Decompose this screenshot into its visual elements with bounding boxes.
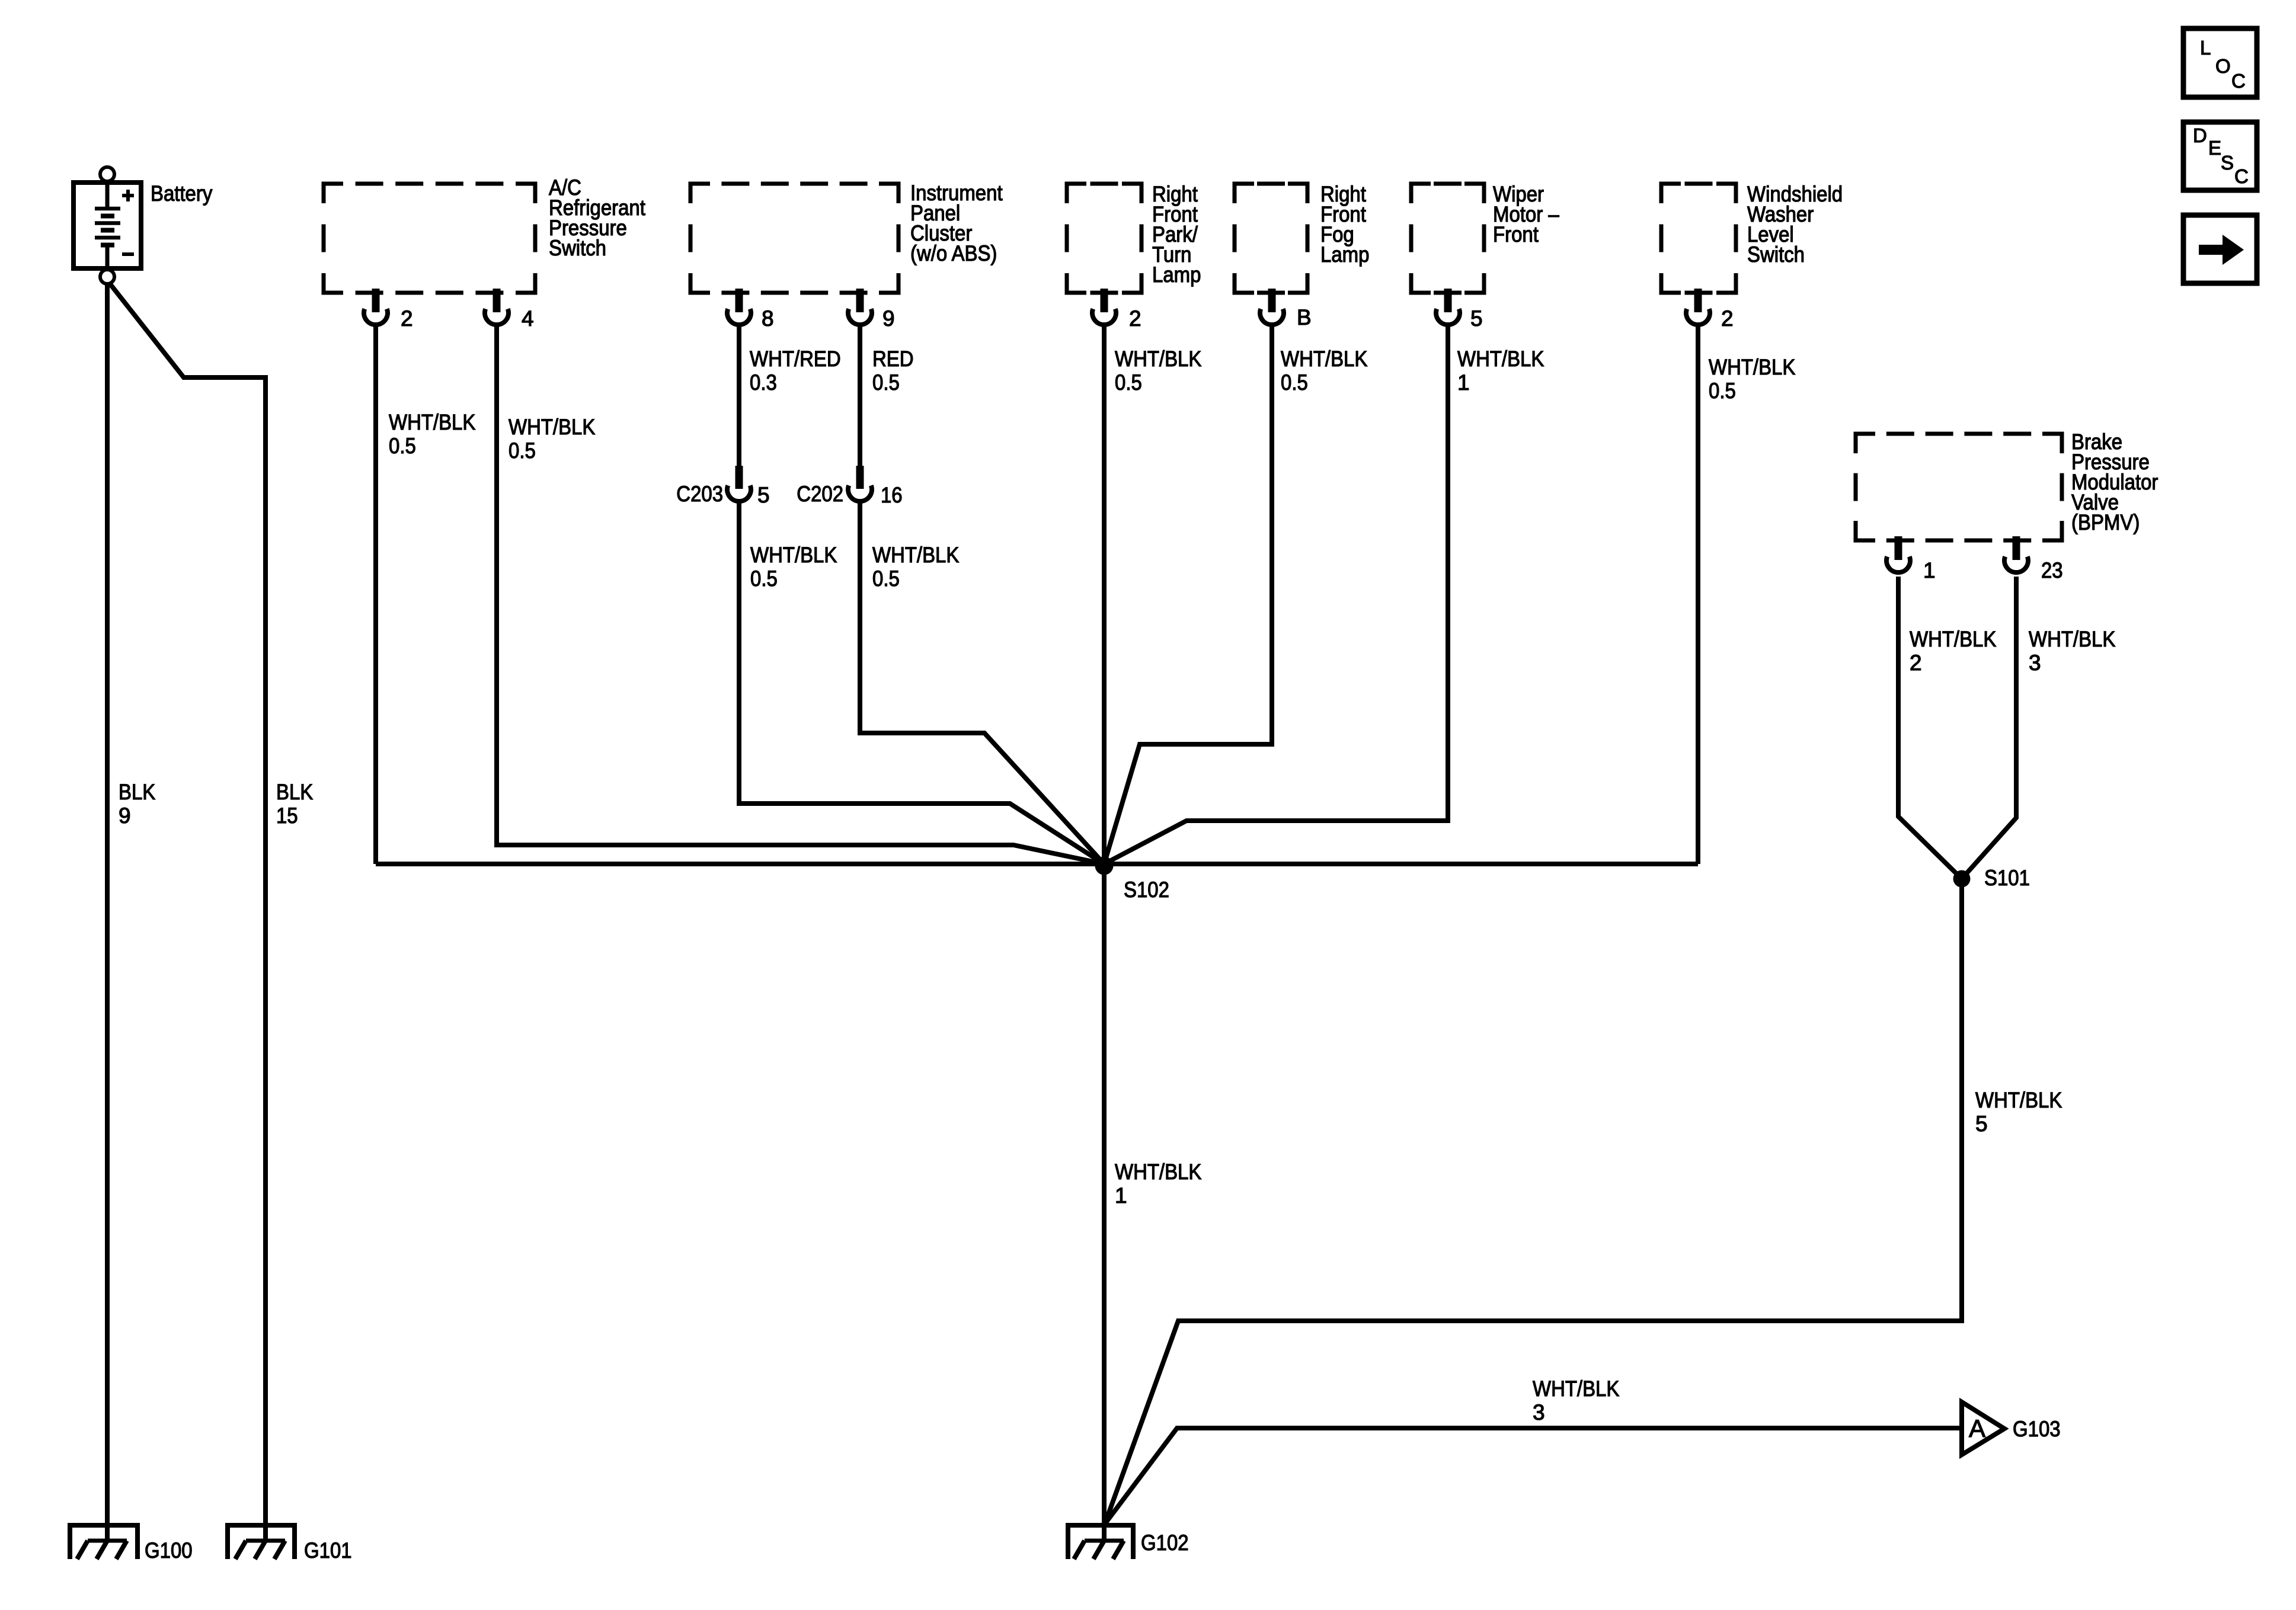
ground G102	[1068, 1525, 1133, 1559]
wire WHT/BLK 0.5 C203 to S102	[739, 501, 1104, 864]
A/C refrigerant pressure switch box	[324, 184, 535, 293]
wiper motor pin 5	[1436, 289, 1460, 325]
svg-text:1: 1	[1923, 558, 1936, 582]
svg-text:WHT/BLK: WHT/BLK	[2029, 627, 2116, 651]
wire WHT/BLK 0.5 park lamp to S102	[1102, 325, 1107, 864]
svg-text:0.5: 0.5	[1281, 370, 1308, 395]
label WHT/BLK 1 wiper	[1457, 347, 1544, 395]
pin number 2	[1721, 306, 1734, 331]
svg-text:WHT/BLK: WHT/BLK	[1975, 1088, 2062, 1112]
label S101	[1984, 866, 2030, 890]
fog lamp pin B	[1260, 289, 1284, 325]
svg-text:WHT/BLK: WHT/BLK	[1281, 347, 1368, 371]
wire WHT/BLK 0.5 fog lamp to S102	[1104, 325, 1272, 864]
label G101	[304, 1538, 352, 1563]
pin number 5	[1470, 306, 1483, 331]
wire main horizontal into S102	[376, 862, 1698, 866]
svg-text:1: 1	[1115, 1183, 1127, 1208]
LOC legend box	[2183, 28, 2257, 97]
pin number 23	[2041, 558, 2063, 582]
svg-text:0.5: 0.5	[389, 434, 416, 458]
svg-text:Switch: Switch	[549, 236, 606, 260]
wiper motor box	[1411, 184, 1484, 293]
label WHT/BLK 0.5 pin2	[389, 410, 476, 458]
svg-text:15: 15	[276, 804, 298, 828]
label WHT/RED 0.3	[750, 347, 841, 395]
svg-text:WHT/BLK: WHT/BLK	[389, 410, 476, 434]
svg-text:WHT/RED: WHT/RED	[750, 347, 841, 371]
pin number 1	[1923, 558, 1936, 582]
label G102	[1141, 1531, 1189, 1555]
connector C203 pin 5	[727, 466, 751, 501]
svg-text:5: 5	[1975, 1112, 1988, 1136]
svg-text:9: 9	[882, 306, 895, 331]
svg-text:Front: Front	[1493, 222, 1539, 247]
A/C switch pin 2	[364, 289, 388, 325]
svg-text:RED: RED	[872, 347, 914, 371]
svg-text:Lamp: Lamp	[1320, 242, 1369, 267]
svg-text:0.5: 0.5	[1709, 379, 1736, 403]
label WHT/BLK 2	[1910, 627, 1997, 675]
svg-text:5: 5	[757, 483, 770, 507]
svg-text:16: 16	[881, 483, 903, 507]
svg-text:S102: S102	[1124, 878, 1169, 902]
pin number 8	[762, 306, 774, 331]
svg-text:A: A	[1969, 1414, 1985, 1442]
svg-text:0.5: 0.5	[872, 370, 900, 395]
svg-text:5: 5	[1470, 306, 1483, 331]
wire RED 0.5 pin9 to C202	[858, 325, 862, 468]
wire WHT/BLK 0.5 pin2 to S102	[373, 325, 378, 864]
svg-text:(w/o ABS): (w/o ABS)	[910, 241, 997, 265]
svg-text:G103: G103	[2013, 1417, 2061, 1441]
label C202	[797, 482, 843, 506]
svg-text:BLK: BLK	[276, 780, 313, 804]
pin number 5	[757, 483, 770, 507]
svg-text:C203: C203	[676, 482, 723, 506]
battery	[73, 183, 141, 270]
right front park/turn lamp box	[1067, 184, 1141, 293]
svg-text:2: 2	[1129, 306, 1141, 331]
svg-text:0.5: 0.5	[872, 566, 900, 591]
svg-text:Lamp: Lamp	[1152, 263, 1201, 287]
letter A in G103 triangle	[1969, 1414, 1985, 1442]
svg-text:Battery: Battery	[151, 181, 213, 206]
svg-text:WHT/BLK: WHT/BLK	[1910, 627, 1997, 651]
park/turn pin 2	[1092, 289, 1116, 325]
label RED 0.5	[872, 347, 914, 395]
instrument panel cluster label	[910, 181, 1003, 265]
svg-text:S: S	[2221, 152, 2234, 174]
svg-text:G100: G100	[145, 1538, 193, 1563]
svg-text:2: 2	[401, 306, 413, 331]
wire WHT/BLK 1 S102 to G102	[1102, 864, 1107, 1541]
svg-text:C202: C202	[797, 482, 843, 506]
wire BLK 9 battery to G100	[105, 284, 110, 1541]
ground symbol G103 triangle	[1962, 1402, 2004, 1455]
svg-text:WHT/BLK: WHT/BLK	[1709, 355, 1796, 379]
splice S101	[1953, 870, 1971, 888]
label WHT/BLK 5	[1975, 1088, 2062, 1136]
splice S102	[1095, 857, 1114, 875]
label WHT/BLK 0.5 park lamp	[1115, 347, 1202, 395]
A/C switch pin 4	[485, 289, 509, 325]
svg-text:2: 2	[1910, 651, 1922, 675]
svg-text:4: 4	[522, 306, 534, 331]
svg-text:WHT/BLK: WHT/BLK	[872, 543, 960, 567]
wire WHT/BLK 1 wiper to S102	[1104, 325, 1448, 864]
battery negative terminal	[100, 270, 114, 284]
svg-text:(BPMV): (BPMV)	[2071, 510, 2140, 534]
svg-text:Switch: Switch	[1747, 242, 1805, 267]
label WHT/BLK 3	[2029, 627, 2116, 675]
pin number 2	[1129, 306, 1141, 331]
svg-text:E: E	[2208, 137, 2221, 159]
svg-text:1: 1	[1457, 370, 1470, 395]
label WHT/BLK 0.5 below C202	[872, 543, 960, 591]
svg-text:G101: G101	[304, 1538, 352, 1563]
svg-text:G102: G102	[1141, 1531, 1189, 1555]
svg-text:WHT/BLK: WHT/BLK	[750, 543, 837, 567]
svg-text:0.5: 0.5	[509, 438, 536, 463]
BPMV label	[2071, 430, 2158, 534]
pin number 9	[882, 306, 895, 331]
wire WHT/BLK 0.5 C202 to S102	[860, 501, 1104, 864]
svg-text:L: L	[2200, 37, 2211, 59]
wiper motor label	[1493, 182, 1559, 247]
IPC pin 9	[848, 289, 872, 325]
instrument panel cluster box	[690, 184, 898, 293]
wire BLK 15 battery to G101	[109, 283, 266, 1541]
IPC pin 8	[727, 289, 751, 325]
wire WHT/BLK 0.5 pin4 to S102	[497, 325, 1104, 864]
brake pressure modulator valve box	[1856, 434, 2062, 540]
label WHT/BLK 0.5 washer	[1709, 355, 1796, 403]
svg-text:0.5: 0.5	[750, 566, 778, 591]
windshield washer level switch box	[1661, 184, 1736, 293]
svg-text:WHT/BLK: WHT/BLK	[1533, 1377, 1620, 1401]
right front fog lamp box	[1235, 184, 1307, 293]
svg-text:0.5: 0.5	[1115, 370, 1142, 395]
wire WHT/RED 0.3 pin8 to C203	[737, 325, 741, 468]
svg-text:S101: S101	[1984, 866, 2030, 890]
svg-text:WHT/BLK: WHT/BLK	[509, 415, 596, 439]
label WHT/BLK 0.5 fog lamp	[1281, 347, 1368, 395]
label WHT/BLK 0.5 pin4	[509, 415, 596, 463]
svg-text:B: B	[1297, 305, 1312, 329]
wire WHT/BLK 2 pin1 to S101	[1898, 577, 1962, 879]
svg-text:BLK: BLK	[119, 780, 155, 804]
label G100	[145, 1538, 193, 1563]
svg-text:0.3: 0.3	[750, 370, 777, 395]
washer switch pin 2	[1686, 289, 1710, 325]
svg-text:O: O	[2215, 55, 2231, 77]
label BLK 15	[276, 780, 313, 828]
fog lamp label	[1320, 182, 1369, 267]
washer switch label	[1747, 182, 1843, 267]
svg-text:WHT/BLK: WHT/BLK	[1115, 347, 1202, 371]
BPMV pin 23	[2004, 536, 2028, 572]
label WHT/BLK 0.5 below C203	[750, 543, 837, 591]
svg-text:3: 3	[2029, 651, 2041, 675]
DESC legend box	[2183, 122, 2257, 190]
svg-text:C: C	[2234, 165, 2249, 187]
svg-text:C: C	[2231, 70, 2246, 92]
pin letter B	[1297, 305, 1312, 329]
wire WHT/BLK 5 S101 to G102	[1105, 879, 1962, 1524]
wire WHT/BLK 3 G102 to G103	[1105, 1428, 1959, 1524]
pin number 2	[401, 306, 413, 331]
pin number 4	[522, 306, 534, 331]
arrow legend box	[2183, 215, 2257, 283]
pin number 16	[881, 483, 903, 507]
label G103	[2013, 1417, 2061, 1441]
svg-text:D: D	[2193, 124, 2207, 146]
battery positive terminal	[100, 167, 114, 181]
label WHT/BLK 1 below S102	[1115, 1160, 1202, 1208]
battery label	[151, 181, 213, 206]
label BLK 9	[119, 780, 155, 828]
svg-text:8: 8	[762, 306, 774, 331]
svg-text:2: 2	[1721, 306, 1734, 331]
label WHT/BLK 3 to G103	[1533, 1377, 1620, 1425]
label C203	[676, 482, 723, 506]
ground G101	[228, 1525, 295, 1559]
label S102	[1124, 878, 1169, 902]
A/C switch label	[549, 175, 646, 260]
connector C202 pin 16	[848, 466, 872, 501]
ground G100	[70, 1525, 137, 1559]
park/turn lamp label	[1152, 182, 1201, 287]
svg-text:WHT/BLK: WHT/BLK	[1115, 1160, 1202, 1184]
svg-text:23: 23	[2041, 558, 2063, 582]
BPMV pin 1	[1886, 536, 1910, 572]
svg-text:WHT/BLK: WHT/BLK	[1457, 347, 1544, 371]
wire WHT/BLK 3 pin23 to S101	[1962, 577, 2016, 879]
svg-text:3: 3	[1533, 1400, 1545, 1425]
wire WHT/BLK 0.5 washer to S102	[1696, 325, 1700, 864]
svg-text:9: 9	[119, 804, 131, 828]
